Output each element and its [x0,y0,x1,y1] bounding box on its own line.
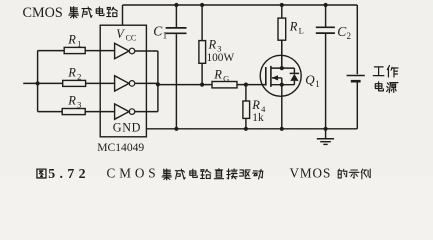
transistor Q1 VMOS [260,55,301,96]
wire inverter 2 output [135,82,158,84]
capacitor C2 [325,5,327,27]
svg-text:2: 2 [77,72,81,82]
wire bottom GND rail [147,128,357,130]
body diode [293,68,295,73]
svg-text:MC14049: MC14049 [97,141,144,154]
wire input bus [37,51,39,112]
wire battery to bottom rail [356,82,358,129]
svg-text:R: R [67,66,76,80]
label 工作电源 (working power) [373,66,398,93]
svg-text:R: R [67,94,76,108]
node dots [174,3,178,7]
inverter U1a [115,43,129,58]
svg-text:GND: GND [113,121,141,135]
body arrow [272,77,282,79]
svg-text:1k: 1k [252,112,264,124]
caption figure 5.72 [37,169,46,178]
svg-text:R: R [213,68,222,82]
svg-text:2: 2 [347,31,352,41]
svg-text:G: G [223,74,229,84]
svg-text:L: L [299,25,304,35]
svg-text:CMOS: CMOS [107,165,160,180]
wire top VCC rail [123,4,358,6]
wire VCC drop to IC [122,5,124,25]
resistor R3 input [38,111,63,113]
svg-text:R: R [208,38,217,52]
svg-text:1: 1 [163,31,168,41]
inverter U1c [115,104,129,119]
svg-text:Q: Q [305,72,315,87]
resistor R2 [63,80,86,86]
svg-text:R: R [251,98,260,112]
IC U1 box MC14049 hex inverter [100,25,146,137]
resistor R1 [38,50,65,52]
wire drain [281,40,283,68]
resistor R4 [245,85,247,101]
battery working power supply [347,75,365,77]
svg-text:VMOS: VMOS [290,165,332,180]
drain bar [271,67,295,69]
wire output tie line [157,51,159,112]
svg-text:1: 1 [77,39,81,49]
wire right drop to battery [356,5,358,74]
wire gate drive [158,84,212,86]
resistor R3 [201,5,203,41]
svg-text:1: 1 [315,79,320,89]
channel bar [270,66,272,87]
capacitor C1 [175,5,177,27]
inverter U1b [115,76,129,91]
svg-text:R: R [67,33,76,47]
svg-text:3: 3 [77,100,81,110]
resistor RG [212,82,237,88]
svg-text:R: R [289,19,298,33]
wire inverter 3 output [135,111,158,113]
wire input lead [23,82,63,84]
gate bar [265,67,267,86]
source bar [271,84,295,86]
wire inverter 1 output [135,50,158,52]
resistor RL [281,5,283,18]
ground [325,129,327,139]
svg-text:100W: 100W [207,52,235,64]
svg-text:CMOS: CMOS [23,5,63,21]
svg-text:CC: CC [126,34,137,43]
svg-text:5.72: 5.72 [48,166,90,181]
wire source [281,85,283,129]
